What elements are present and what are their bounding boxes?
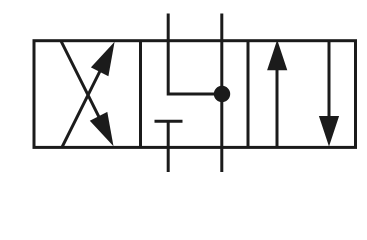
port line P (top left of centre box) with L connector [168,14,222,95]
arrowhead up-right (left box) [91,42,115,76]
envelope divider 2 [247,41,250,148]
4/3 directional control valve symbol [0,0,367,177]
arrowhead up (right box) [267,40,287,70]
envelope divider 1 [139,41,142,148]
arrowhead down (right box) [319,116,339,147]
right position: up arrow shaft [276,68,279,147]
left position: crossed flow arrow shaft (up-right) [62,51,110,147]
right position: down arrow shaft [328,41,331,119]
left position: crossed flow arrow shaft (down-right) [61,41,109,137]
junction dot [214,86,230,102]
blocked port T-bar [155,120,183,123]
arrowhead down-right (left box) [90,112,114,146]
port line B (top right of centre box, through box) [220,14,223,173]
blocked port stem [167,121,170,172]
valve envelope outer box [34,41,356,148]
